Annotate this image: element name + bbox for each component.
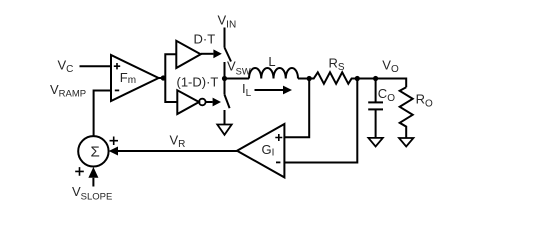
svg-text:VRAMP: VRAMP xyxy=(50,82,86,100)
svg-text:Fm: Fm xyxy=(120,70,136,86)
svg-text:IL: IL xyxy=(242,81,252,99)
svg-text:VSLOPE: VSLOPE xyxy=(72,184,112,203)
node Fm output junction xyxy=(161,75,166,80)
label VC xyxy=(58,57,74,75)
svg-text:Σ: Σ xyxy=(91,144,100,161)
svg-text:L: L xyxy=(268,54,275,69)
wire inductor to node xyxy=(298,78,309,80)
plus sign at VSLOPE input xyxy=(75,167,84,176)
label IL xyxy=(242,81,252,99)
label CO xyxy=(378,86,395,104)
wire branch to buffer and inverter xyxy=(165,54,177,102)
arrow VSLOPE into summer xyxy=(88,167,98,187)
node after inductor xyxy=(307,76,312,81)
wire GI output VR to summer xyxy=(118,150,237,152)
svg-text:VC: VC xyxy=(58,57,74,75)
plus sign at VR input xyxy=(110,137,119,146)
node VO junction xyxy=(373,76,378,81)
svg-text:(1-D)·T: (1-D)·T xyxy=(177,75,219,90)
svg-text:RS: RS xyxy=(329,56,345,74)
label VR xyxy=(170,133,186,151)
wire S1 lower contact to VSW node xyxy=(224,62,226,79)
ground at RO xyxy=(399,138,413,147)
summer sigma xyxy=(78,136,108,166)
node VSW junction xyxy=(222,76,227,81)
ground at CO xyxy=(368,138,382,147)
wire summer output to Fm - input (VRAMP node) xyxy=(94,91,111,137)
label RO xyxy=(416,92,433,110)
amplifier GI xyxy=(237,124,284,177)
capacitor CO xyxy=(368,79,383,138)
svg-text:VR: VR xyxy=(170,133,186,151)
svg-text:VO: VO xyxy=(382,57,399,75)
current arrow IL xyxy=(255,86,293,95)
svg-text:RO: RO xyxy=(416,92,433,110)
label VSW xyxy=(227,59,251,77)
svg-text:VIN: VIN xyxy=(218,13,237,31)
switch S1 high-side blade xyxy=(225,48,232,62)
label VRAMP xyxy=(50,82,86,100)
control arrow from inverter to switch S2 xyxy=(206,98,221,107)
resistor RO xyxy=(400,87,413,138)
resistor RS xyxy=(309,72,357,84)
wire GI - input to node RS right xyxy=(284,79,357,163)
wire RS to VO and RO xyxy=(357,79,406,88)
label VIN xyxy=(218,13,237,31)
buffer D·T xyxy=(176,31,215,68)
svg-text:VSW: VSW xyxy=(227,59,251,77)
switch S2 low-side xyxy=(225,79,230,125)
label VSLOPE xyxy=(72,184,112,203)
label VO xyxy=(382,57,399,75)
ground at switch S2 xyxy=(217,125,231,135)
control arrow from D·T to switch S1 xyxy=(201,49,222,58)
node RS right xyxy=(355,76,360,81)
arrow VR into summer xyxy=(109,147,118,156)
wire VIN to switch S1 xyxy=(224,28,226,48)
wire Fm output xyxy=(159,77,166,79)
label RS xyxy=(329,56,345,74)
wire VC to Fm + input xyxy=(80,65,112,67)
wire GI + input to node after inductor xyxy=(284,79,309,138)
svg-text:CO: CO xyxy=(378,86,395,104)
comparator Fm xyxy=(111,55,159,101)
svg-text:GI: GI xyxy=(262,142,275,159)
svg-text:D·T: D·T xyxy=(194,31,216,46)
inverter (1-D)·T xyxy=(177,75,219,115)
label L xyxy=(268,54,275,69)
wire VSW to inductor xyxy=(225,78,250,80)
inductor L xyxy=(249,68,298,79)
